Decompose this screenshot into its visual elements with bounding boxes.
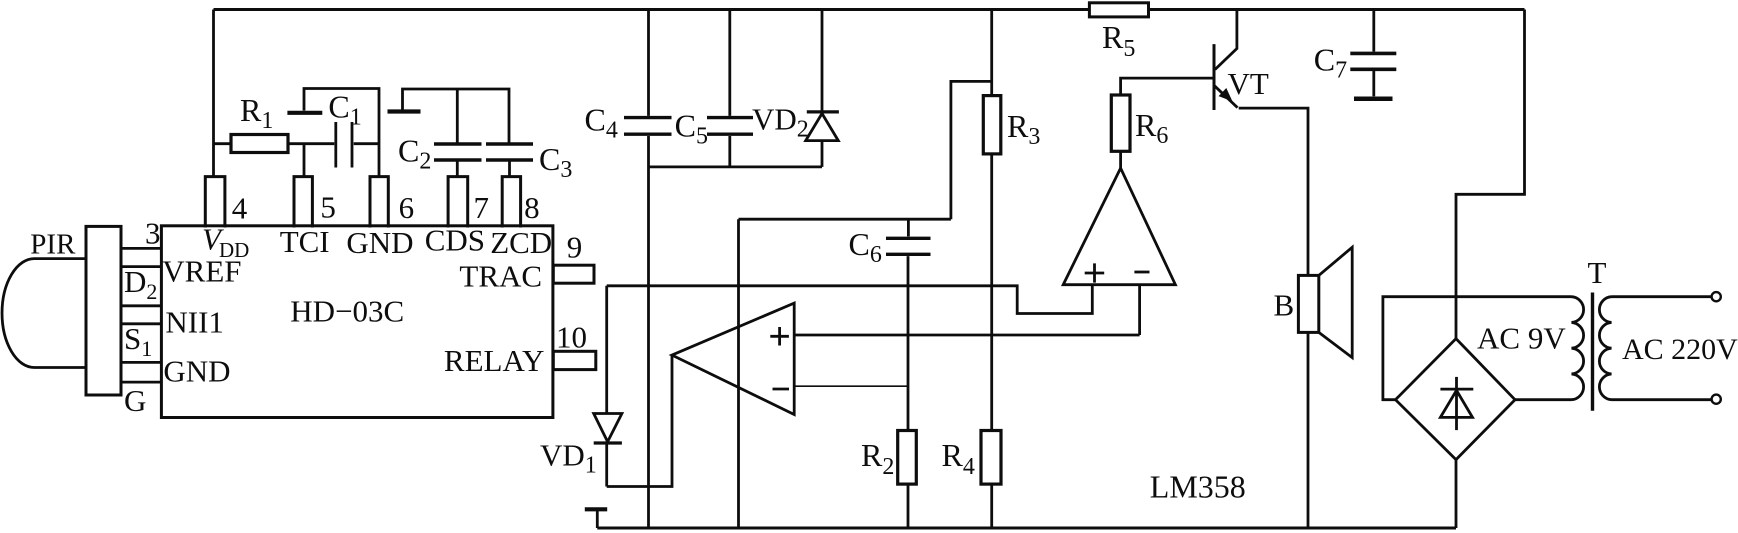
wire secondary bottom terminal (1612, 398, 1712, 401)
svg-text:GND: GND (163, 354, 230, 389)
ground bar near VD1 (585, 507, 607, 511)
wire VD1 upper lead (605, 286, 608, 414)
wire speaker to bottom rail (1307, 332, 1310, 528)
svg-text:ZCD: ZCD (490, 225, 552, 260)
wire top supply rail (214, 8, 1525, 11)
wire C7 top lead (1372, 10, 1375, 52)
svg-text:HD−03C: HD−03C (290, 294, 404, 329)
op-amp U1b (1063, 168, 1175, 285)
wire C2 top lead (456, 89, 459, 143)
svg-text:VREF: VREF (162, 254, 241, 289)
svg-text:C5: C5 (675, 108, 708, 150)
wire rail right end down jog to bridge top (1456, 10, 1525, 339)
svg-text:VD1: VD1 (540, 438, 597, 479)
wire U1b output to R6 (1119, 151, 1122, 168)
capacitor C7 (1350, 53, 1396, 69)
svg-text:TCI: TCI (280, 224, 330, 259)
bridge rectifier inner diode (1455, 377, 1458, 430)
wire VD1 bottom to op-amp U1a output (607, 355, 672, 486)
svg-text:8: 8 (524, 190, 540, 225)
svg-text:TRAC: TRAC (459, 259, 542, 294)
pin 10 box RELAY (553, 351, 596, 369)
op-amp U1a (672, 303, 794, 414)
diode VD2 (807, 110, 839, 113)
wire C5 top lead (728, 10, 731, 116)
wire C4 top lead (647, 10, 650, 116)
svg-text:7: 7 (474, 190, 490, 225)
bridge rectifier diamond (1396, 339, 1516, 460)
svg-text:C6: C6 (849, 226, 882, 268)
speaker B cone (1319, 247, 1352, 357)
wire C3 bottom lead to pin 8 (508, 162, 511, 177)
resistor R3 (983, 96, 1001, 154)
svg-text:C3: C3 (539, 141, 572, 183)
svg-text:9: 9 (567, 230, 583, 265)
svg-text:VT: VT (1228, 66, 1269, 101)
speaker B body (1298, 275, 1318, 332)
wire R6 top to VT base (1121, 78, 1213, 95)
ground bar near pin 5 (287, 111, 322, 115)
wire branch from R3 top to C6 line (951, 81, 992, 219)
resistor R6 (1111, 95, 1130, 151)
resistor R2 (898, 431, 917, 485)
svg-text:4: 4 (232, 191, 248, 226)
ground bar near C2 (388, 109, 421, 113)
capacitor C1 (336, 122, 352, 168)
svg-text:C1: C1 (328, 89, 361, 131)
wire C6 horizontal line (739, 218, 951, 221)
wire R3 to R4 vertical (990, 154, 993, 431)
svg-text:R1: R1 (240, 92, 273, 134)
diode VD1 (594, 414, 622, 442)
wire C5 bottom lead (728, 136, 731, 167)
svg-text:PIR: PIR (30, 229, 76, 261)
svg-text:VD2: VD2 (752, 102, 809, 143)
svg-text:AC 9V: AC 9V (1477, 321, 1566, 356)
wire VD1 top to op-amp U1b plus input (607, 285, 1093, 314)
svg-text:C7: C7 (1314, 42, 1347, 84)
svg-text:B: B (1274, 288, 1295, 323)
svg-text:GND: GND (346, 225, 413, 260)
pin 4 box (205, 177, 225, 228)
transformer T primary coil (1572, 297, 1584, 400)
wire VT emitter to speaker (1239, 108, 1308, 275)
svg-text:T: T (1588, 255, 1607, 290)
PIR pin ladder lines (121, 248, 161, 382)
svg-text:6: 6 (399, 190, 415, 225)
svg-text:C4: C4 (585, 102, 618, 144)
resistor R1 (231, 135, 288, 153)
wire R1 left lead (214, 142, 232, 145)
wire VD2 top lead (821, 10, 824, 112)
wire C4 bottom lead to bottom rail (647, 136, 650, 528)
svg-text:G: G (124, 383, 146, 418)
wire R4 bottom lead (990, 484, 993, 528)
pin 9 box TRAC (553, 265, 594, 283)
wire C6 top lead (907, 219, 910, 236)
capacitor C6 (886, 238, 931, 254)
svg-text:R5: R5 (1102, 19, 1135, 62)
svg-text:R3: R3 (1007, 108, 1040, 150)
svg-text:R2: R2 (861, 437, 894, 480)
capacitor C5 (707, 118, 753, 135)
transistor VT base bar (1213, 44, 1216, 110)
wire R2 bottom lead (907, 484, 910, 528)
pin 7 box (448, 177, 468, 228)
capacitor C2 (434, 144, 482, 160)
wire bridge left vertex to transformer top (1383, 297, 1572, 400)
wire ground stem (596, 511, 599, 528)
wire VD1 lower lead (605, 443, 608, 487)
op-amp U1a minus sign (773, 388, 790, 391)
terminal circle top (1712, 292, 1721, 301)
wire bottom ground rail (597, 527, 1456, 530)
transistor VT emitter with arrow (1215, 86, 1238, 108)
svg-text:5: 5 (320, 190, 336, 225)
wire C6 bottom to R2 (907, 256, 910, 430)
wire U1a minus input lead (794, 385, 908, 387)
wire junction line C4 C5 VD2 (649, 165, 823, 168)
svg-text:3: 3 (145, 216, 161, 251)
wire secondary top terminal (1612, 295, 1712, 298)
wire U1a plus input to U1b minus input (794, 334, 1139, 337)
capacitor C3 (486, 144, 533, 160)
resistor R4 (981, 431, 1001, 485)
pin 5 box (294, 177, 312, 228)
wire C7 bottom lead (1372, 71, 1375, 96)
resistor R5 (1089, 3, 1148, 17)
PIR dome (2, 259, 86, 368)
PIR sensor body (86, 226, 121, 395)
svg-text:C2: C2 (398, 133, 431, 175)
svg-text:D2: D2 (124, 264, 157, 304)
svg-text:NII1: NII1 (165, 305, 224, 340)
wire pin 5 stub (303, 144, 306, 177)
op-amp U1a plus sign (770, 327, 789, 346)
wire R1 right lead (288, 142, 334, 145)
wire bridge bottom to bottom rail (1455, 460, 1458, 528)
wire VD2 bottom lead (821, 141, 824, 167)
svg-text:10: 10 (556, 320, 587, 355)
pin 6 box (370, 177, 388, 228)
transformer T secondary coil (1599, 297, 1611, 400)
wire ground bracket over C2 C3 (403, 89, 510, 143)
wire C2 bottom lead to pin 7 (456, 162, 459, 177)
wire VDD vertical from rail to pin 4 (212, 10, 215, 178)
ground bar under C7 (1354, 97, 1393, 102)
transistor VT collector (1215, 10, 1237, 70)
svg-text:RELAY: RELAY (444, 343, 544, 378)
capacitor C4 (624, 118, 672, 135)
svg-text:R4: R4 (942, 437, 975, 480)
pin 8 box (502, 177, 520, 228)
wire ground bracket over C1 to pin 6 (304, 89, 379, 177)
transformer T core (1591, 293, 1594, 411)
svg-text:S1: S1 (124, 321, 152, 361)
wire C1 right lead to pin 6 vertical (354, 142, 379, 145)
svg-text:LM358: LM358 (1150, 469, 1246, 505)
svg-text:R6: R6 (1135, 107, 1168, 149)
IC U1 HD-03C body (161, 226, 553, 418)
terminal circle bottom (1712, 395, 1721, 404)
wire U1b minus input lead (1138, 285, 1141, 335)
op-amp U1b plus sign (1085, 263, 1105, 282)
wire R3 top lead (990, 10, 993, 96)
svg-text:CDS: CDS (425, 223, 485, 258)
wire bridge right vertex to transformer bottom (1515, 398, 1572, 401)
svg-text:AC 220V: AC 220V (1622, 333, 1738, 366)
op-amp U1b minus sign (1134, 271, 1149, 274)
wire left vertical to bottom rail (737, 219, 740, 528)
